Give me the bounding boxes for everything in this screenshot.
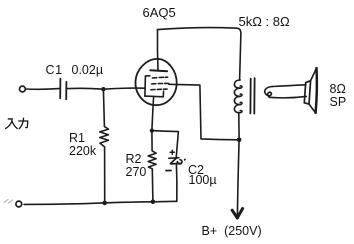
wire inside tube to grid bracket <box>136 87 145 89</box>
screen wire tube to corner <box>169 84 239 140</box>
C2 bottom lead <box>175 164 178 202</box>
grid dashes row 3 <box>151 88 167 91</box>
resistor R1 <box>100 89 109 203</box>
input terminal upper <box>20 86 26 92</box>
label 5k:8 <box>239 15 290 28</box>
plate rail to transformer <box>158 28 241 80</box>
label R1 <box>69 132 96 158</box>
capacitor C2 plates <box>169 158 186 164</box>
primary bottom lead <box>238 113 240 140</box>
secondary bottom wire <box>269 96 306 97</box>
speaker driver <box>304 81 310 104</box>
label 6AQ5 <box>143 6 176 19</box>
ground bus wire <box>24 201 177 204</box>
plate lead up to rail <box>156 30 159 71</box>
node R1 ground <box>102 201 107 206</box>
tube envelope U1 6AQ5 <box>135 59 176 105</box>
node cathode tee <box>150 129 154 133</box>
wire tee to C2 <box>152 131 179 158</box>
secondary loop <box>265 87 273 98</box>
label R2 <box>126 153 147 179</box>
node R2 ground <box>151 200 156 205</box>
resistor R2 <box>148 131 156 202</box>
transformer primary coil <box>234 80 242 113</box>
label 8ohm SP <box>330 83 347 109</box>
cathode lead down <box>152 97 154 131</box>
label B+ <box>202 225 262 238</box>
speaker cone top <box>311 68 317 80</box>
ground hatch smudge <box>4 200 13 204</box>
wire C1 to grid node <box>67 87 103 90</box>
control grid bracket <box>145 76 150 96</box>
C2 minus sign <box>166 170 171 172</box>
speaker cone bottom <box>309 104 315 113</box>
capacitor C1 <box>60 79 66 100</box>
C2 plus sign <box>170 150 174 154</box>
label input <box>4 117 6 130</box>
wire input to C1 <box>25 88 59 91</box>
input terminal lower <box>16 201 22 207</box>
tube plate bar <box>150 70 167 71</box>
grid dashes row 2 screen <box>152 82 169 85</box>
transformer core <box>250 78 254 113</box>
B+ lead <box>237 140 239 214</box>
cathode bar <box>145 91 164 97</box>
secondary top wire <box>273 85 306 87</box>
speaker cone mouth <box>316 68 317 113</box>
label C1 value <box>46 64 63 77</box>
node B+ junction <box>237 138 242 143</box>
B+ arrowhead <box>232 209 243 218</box>
node grid junction <box>101 87 105 91</box>
wire grid node to tube <box>103 88 135 89</box>
grid dashes row 1 <box>152 76 167 79</box>
label C2 value <box>188 164 204 177</box>
